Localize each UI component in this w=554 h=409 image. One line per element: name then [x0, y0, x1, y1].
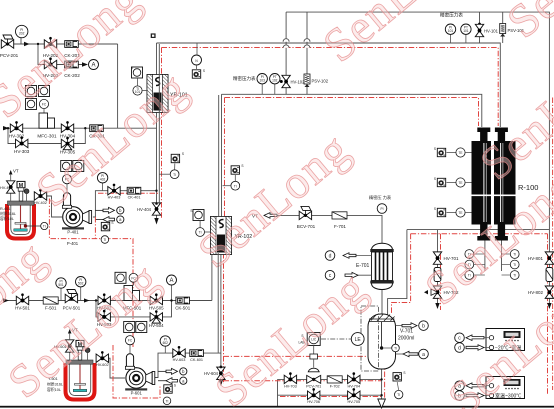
MFC-501 — [123, 286, 142, 311]
wire red hot header — [162, 48, 499, 127]
valve HV-801 — [528, 252, 554, 264]
instrument squares P-401 — [61, 161, 84, 172]
svg-text:HV-706: HV-706 — [307, 400, 320, 404]
check CK-501 — [175, 297, 190, 310]
svg-text:A: A — [91, 63, 95, 69]
valve HV-706 — [307, 388, 320, 404]
wire red P-401 outlet stub — [94, 217, 96, 239]
svg-text:a: a — [422, 352, 425, 358]
gauge TI YR-102 — [196, 221, 211, 237]
wire row connector — [277, 379, 279, 406]
wire P-401 suction — [35, 196, 63, 217]
frame bottom — [0, 406, 554, 408]
pump P-401 — [62, 207, 92, 235]
svg-text:HV-402: HV-402 — [34, 201, 47, 205]
gauge PI-502 — [76, 277, 86, 301]
svg-text:TE: TE — [458, 211, 462, 215]
wire red bottom row2 — [280, 396, 381, 398]
gauge PT-101 — [461, 24, 471, 43]
instrument square MFC-501 — [115, 272, 138, 285]
svg-text:F-501: F-501 — [45, 306, 57, 311]
TI stack left tube — [465, 250, 485, 280]
solenoid square standalone — [192, 65, 205, 78]
valve HV-101 — [475, 23, 498, 37]
wire vertical to MFC row — [117, 44, 119, 128]
wire HV-701 drop — [437, 230, 439, 303]
svg-text:502: 502 — [78, 282, 84, 286]
svg-text:TI: TI — [166, 399, 169, 403]
wire riser to YR-102 bottom — [211, 255, 213, 301]
wire N gauge stem — [196, 43, 198, 55]
thermowell stems R-100 — [484, 241, 486, 272]
gauge TI P-601 — [163, 397, 171, 405]
svg-text:P-401: P-401 — [67, 241, 79, 246]
valve HV-202 — [43, 37, 59, 58]
TI stack right tube — [502, 250, 520, 280]
svg-text:S: S — [241, 164, 243, 168]
thermowell TW P-401 — [101, 221, 113, 231]
svg-text:HV-703: HV-703 — [284, 384, 297, 388]
gauge PI-701 — [377, 204, 387, 214]
wire Y-601 to pump — [97, 358, 126, 378]
svg-text:S: S — [203, 69, 205, 73]
filter F-701 — [332, 212, 347, 229]
svg-text:HV-504: HV-504 — [149, 323, 164, 328]
valve HV-604 — [204, 366, 225, 380]
svg-text:TI: TI — [103, 238, 106, 242]
motor M R-401 — [17, 181, 25, 201]
instrument LE — [321, 333, 364, 346]
wire red outlet manifold — [411, 233, 548, 235]
svg-text:TI: TI — [513, 274, 516, 278]
svg-text:TI: TI — [394, 347, 397, 351]
damper P-601 — [125, 345, 134, 369]
svg-text:材质316L: 材质316L — [0, 211, 16, 216]
thermowell TW feed drop — [231, 164, 243, 174]
svg-text:102: 102 — [272, 79, 278, 83]
wire red oven feed — [225, 98, 479, 127]
svg-text:R-401: R-401 — [0, 207, 10, 211]
valve HV-503 — [97, 310, 112, 327]
drain arrow HV-604 — [219, 380, 223, 387]
svg-text:HV-501: HV-501 — [15, 306, 30, 311]
gauge TI V-701 bottom — [395, 382, 403, 399]
valve HV-702 — [424, 286, 459, 298]
svg-text:TI: TI — [173, 173, 176, 177]
svg-text:TE: TE — [458, 151, 462, 155]
node A — [89, 60, 99, 70]
svg-text:501: 501 — [58, 283, 64, 287]
instrument squares P-601 — [124, 322, 147, 333]
wire MFC-501 bypass — [96, 301, 172, 317]
check CK-601 — [190, 350, 204, 362]
pump P-601 — [125, 368, 155, 396]
port a arrow — [396, 349, 429, 359]
valve HV-505 — [149, 293, 164, 310]
valve HV-401 — [0, 169, 19, 202]
port d arrow — [325, 251, 371, 261]
wire red bottom row1 — [224, 380, 382, 382]
wire red manifold to V-701 — [392, 234, 411, 314]
valve HV-701 — [433, 252, 459, 264]
gauge PI-602 — [160, 336, 170, 353]
wire V-701 drain — [381, 368, 383, 399]
controller TIC YR-101 — [131, 66, 143, 78]
port a arrow P-601 — [158, 377, 187, 384]
gauge PI-202 — [16, 25, 28, 44]
wire PSV-102 drop — [306, 12, 308, 94]
wire manifold to V-701 — [388, 230, 407, 315]
gauge PI-103 — [257, 74, 267, 95]
svg-text:S: S — [190, 209, 192, 213]
svg-text:S: S — [182, 152, 184, 156]
valve HV-601 — [54, 328, 78, 361]
valve HV-705 — [347, 388, 360, 404]
wire red HV-701 leg — [440, 234, 442, 310]
port b arrow box2 — [455, 391, 489, 401]
valve HV-403 — [108, 184, 121, 200]
wire red P-601 loop — [113, 345, 160, 398]
valve HV-501 — [15, 293, 30, 310]
wire E-701 to V-701 — [381, 289, 383, 315]
svg-text:S: S — [131, 66, 133, 70]
wire HV-102 drop — [285, 12, 287, 94]
svg-text:精密压力表: 精密压力表 — [233, 75, 256, 82]
svg-text:d: d — [458, 346, 461, 352]
svg-text:P-401: P-401 — [67, 230, 79, 235]
svg-text:HV-403: HV-403 — [108, 196, 121, 200]
nozzle gauge R-401 — [24, 189, 29, 201]
gauge TI P-401 red line — [101, 236, 109, 244]
valve PCV-701 — [306, 375, 321, 388]
controller LIC — [298, 333, 320, 346]
heater YR-101 — [147, 75, 188, 113]
wire red P-401 discharge — [98, 192, 159, 194]
valve PCV-201 — [0, 35, 19, 58]
wire VT condenser line — [264, 215, 382, 243]
svg-text:TI: TI — [513, 263, 516, 267]
gauge N-101 standalone — [192, 55, 202, 65]
junction arrow PCV-501 — [84, 298, 90, 302]
wire HV-501 row — [4, 300, 212, 302]
wire red P-601 line — [224, 355, 385, 357]
gauge PI-101 — [445, 24, 455, 43]
svg-text:2000ml: 2000ml — [398, 336, 414, 342]
svg-text:HV-704: HV-704 — [347, 384, 360, 388]
wire YR-101 riser second line — [158, 44, 160, 204]
port a arrow box2 — [455, 381, 489, 391]
valve HV-102 — [280, 75, 305, 87]
thermowell TW P-601 — [164, 384, 176, 394]
svg-text:S: S — [174, 384, 176, 388]
valve HV-802 — [528, 286, 554, 298]
valve HV-302 — [9, 121, 25, 138]
gauge PI-402 — [97, 173, 107, 191]
svg-text:FC: FC — [128, 339, 133, 343]
svg-text:602: 602 — [163, 341, 169, 345]
relief PSV-102 — [304, 74, 329, 87]
port d arrow box1 — [455, 343, 489, 353]
valve HV-402 — [34, 189, 47, 205]
wire hop crossings — [283, 39, 310, 48]
filter F HV-801 leg — [546, 268, 553, 282]
wire oven feed line — [222, 94, 482, 127]
check CK-301 — [89, 125, 105, 139]
svg-text:HV-404: HV-404 — [137, 207, 152, 212]
gauge TI YR-101 — [133, 78, 147, 95]
svg-text:103: 103 — [260, 79, 266, 83]
valve HV-404 — [137, 203, 161, 215]
svg-text:TI: TI — [43, 225, 46, 229]
svg-text:精密压力表: 精密压力表 — [440, 12, 463, 19]
svg-text:HV-802: HV-802 — [528, 290, 544, 295]
controller box 300C — [486, 377, 525, 400]
valve HV-203 — [43, 57, 59, 78]
wire R-100 outlet manifold — [407, 229, 550, 231]
drain arrow HV-701 leg — [435, 303, 439, 309]
arrow inlet — [3, 126, 9, 130]
port c arrow box1 — [455, 333, 489, 343]
union fitting YR-101 riser — [151, 33, 156, 38]
svg-text:BCV-701: BCV-701 — [297, 224, 316, 229]
svg-text:PI: PI — [380, 207, 383, 211]
R-100 side TW row2 — [434, 177, 472, 187]
port b arrow P-401 — [95, 207, 124, 214]
arrow inlet 501 — [3, 298, 9, 302]
heat exchanger E-701 — [356, 243, 394, 289]
svg-text:HV-102: HV-102 — [291, 80, 306, 85]
valve HV-602 — [96, 351, 109, 367]
svg-text:S: S — [434, 177, 436, 181]
controller FC P-601 — [125, 336, 134, 345]
svg-text:MFC-301: MFC-301 — [37, 134, 57, 139]
drain arrow YR-101 line — [154, 218, 158, 225]
wire YR-102 second line upper — [218, 95, 220, 216]
relief PSV-101 — [500, 24, 525, 37]
nozzle gauge Y-601 — [85, 348, 90, 360]
wire MFC-301 bypass — [8, 128, 85, 143]
label Y-601 spec — [47, 377, 63, 392]
svg-text:HV-602: HV-602 — [96, 363, 109, 367]
svg-text:PSV-102: PSV-102 — [312, 79, 329, 84]
valve HV-704 — [347, 372, 360, 388]
wire YR-102 feed drop — [221, 94, 223, 218]
arrow VT — [252, 213, 277, 219]
wire top-left main — [13, 43, 118, 45]
port c arrow — [325, 270, 371, 280]
svg-text:LE: LE — [355, 337, 362, 343]
wire bottom valve row 2 — [278, 394, 382, 396]
level gauge chamber dash-dot — [361, 306, 379, 371]
reactor drain TI — [24, 222, 48, 229]
valve PCV-501 — [63, 290, 81, 311]
positioner LIC chain — [308, 346, 319, 372]
RED-TRACING — [49, 48, 552, 403]
gauge TI V-701 — [383, 344, 399, 352]
wire red YR-101 riser — [161, 48, 163, 219]
controller FC P-401 — [62, 175, 71, 184]
check CK-401 — [127, 187, 141, 199]
svg-text:HV-603: HV-603 — [173, 358, 186, 362]
thermowell TW V-701 — [393, 371, 406, 381]
wire bottom valve row 1 — [278, 378, 382, 380]
valve HV-603 — [173, 346, 186, 362]
drain arrow V-701 — [378, 399, 386, 408]
wire hot gas header to R-100 — [157, 43, 501, 127]
wire red V-701 drain — [384, 320, 386, 402]
filter F-702 — [327, 376, 342, 389]
filter F HV-701 leg — [434, 268, 441, 282]
svg-text:CK-401: CK-401 — [128, 196, 141, 200]
node A-501 — [167, 275, 177, 301]
drain arrow HV-801 leg — [547, 303, 551, 309]
svg-text:VT: VT — [13, 169, 19, 174]
wire N2 header — [286, 12, 549, 308]
valve HV-303 — [14, 136, 30, 153]
svg-text:V-701: V-701 — [400, 329, 413, 335]
port a arrow P-401 — [95, 216, 124, 223]
svg-text:HV-303: HV-303 — [14, 149, 30, 154]
wire YR-102 bottom drop — [220, 253, 222, 381]
svg-text:d: d — [329, 254, 332, 260]
port b arrow P-601 — [158, 368, 187, 375]
valve HV-305 — [60, 137, 76, 155]
svg-text:E-701: E-701 — [356, 263, 370, 269]
svg-text:F-701: F-701 — [334, 224, 346, 229]
wire red right leg — [547, 234, 549, 395]
valve HV-502 — [97, 293, 112, 310]
wire red YR-102 lower — [223, 253, 225, 384]
thermowell TW riser — [171, 152, 184, 163]
arrow to A — [82, 62, 88, 66]
damper P-401 — [62, 184, 71, 208]
svg-text:TI: TI — [397, 393, 400, 397]
svg-text:202: 202 — [19, 32, 25, 36]
port b arrow — [396, 321, 429, 331]
check CK-202 — [64, 61, 80, 78]
reactor R-401 jacketed — [7, 201, 34, 239]
svg-text:A: A — [169, 278, 173, 284]
svg-text:CK-501: CK-501 — [175, 306, 190, 311]
svg-text:b: b — [422, 324, 425, 330]
gauge TI feed drop — [223, 175, 240, 190]
svg-text:PCV-701: PCV-701 — [306, 384, 321, 388]
svg-text:精密压 力表: 精密压 力表 — [369, 194, 392, 201]
motor M Y-601 — [76, 340, 84, 360]
svg-text:101: 101 — [463, 29, 469, 33]
reactor Y-601 jacketed — [66, 360, 95, 400]
wire red YR-102 drop — [224, 98, 226, 219]
controller box -20C — [486, 329, 525, 352]
gauge PT-102 — [270, 74, 280, 95]
svg-text:S: S — [403, 371, 405, 375]
label R-401 spec — [0, 207, 16, 221]
svg-text:HV-705: HV-705 — [347, 400, 360, 404]
svg-text:容积10L: 容积10L — [0, 216, 14, 221]
wire red pump loop — [49, 199, 133, 349]
wire HV-101 leg — [479, 12, 481, 43]
check CK-201 — [64, 41, 80, 58]
wire YR-102 second line lower — [217, 253, 219, 353]
svg-text:TI: TI — [234, 184, 237, 188]
svg-text:TE: TE — [458, 181, 462, 185]
R-100 side TW row3 — [434, 207, 472, 217]
valve HV-504 — [149, 310, 164, 328]
svg-text:HV-801: HV-801 — [528, 256, 544, 261]
reactor R-100 — [472, 128, 539, 241]
svg-text:S: S — [434, 207, 436, 211]
wire MFC-301 row — [4, 127, 157, 129]
gauge PI-501 — [56, 278, 66, 301]
svg-text:P-601: P-601 — [131, 391, 143, 396]
gauge TI riser — [159, 164, 179, 179]
wire P-401 discharge — [93, 191, 157, 217]
heater YR-102 — [211, 217, 253, 255]
wire YR-101 riser — [156, 43, 158, 222]
svg-text:101: 101 — [448, 29, 454, 33]
controller TIC YR-102 — [190, 209, 204, 221]
instrument squares MFC-301 panel — [26, 86, 50, 114]
svg-text:F-702: F-702 — [330, 384, 340, 388]
MFC-301 — [37, 113, 57, 139]
svg-text:HV-401: HV-401 — [0, 186, 13, 190]
vessel V-701 — [368, 314, 414, 369]
svg-text:S: S — [434, 147, 436, 151]
wire P-601 discharge — [155, 353, 221, 377]
valve HV-304 — [60, 121, 76, 138]
wire branch HV-203 — [38, 44, 86, 65]
svg-text:S: S — [111, 221, 113, 225]
filter F-501 — [43, 297, 58, 311]
svg-text:HV-101: HV-101 — [484, 29, 499, 34]
wire PSV-101 leg — [502, 12, 504, 43]
valve HV-703 — [284, 372, 297, 388]
svg-text:CK-601: CK-601 — [190, 358, 203, 362]
R-100 side TW row1 — [434, 147, 472, 157]
wire red right edge — [552, 98, 554, 391]
valve BCV-701 — [297, 206, 316, 229]
junction arrow — [24, 42, 30, 46]
